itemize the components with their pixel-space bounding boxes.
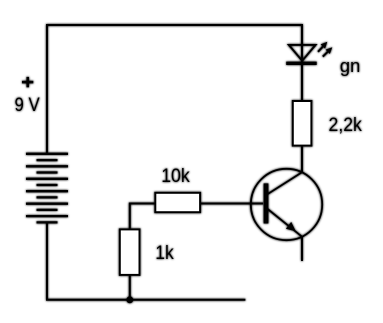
wire collector: [301, 146, 303, 173]
LED D1 arrow 1: [318, 42, 327, 52]
node junction dot: [126, 296, 133, 303]
resistor 1k: [120, 229, 140, 275]
transistor Q1 collector diagonal: [267, 172, 302, 194]
svg-text:gn: gn: [340, 55, 361, 76]
wire left rail: [46, 24, 48, 153]
transistor Q1 base bar: [264, 183, 269, 223]
svg-text:1k: 1k: [155, 243, 174, 264]
LED D1 triangle: [289, 45, 316, 61]
wire emitter: [301, 237, 303, 261]
svg-text:10k: 10k: [161, 166, 190, 187]
wire battery to bottom rail: [46, 222, 48, 300]
wire bottom rail: [46, 299, 245, 301]
battery B1 9V: [26, 154, 68, 223]
svg-text:2,2k: 2,2k: [329, 115, 363, 136]
resistor 2,2k: [293, 101, 312, 146]
wire base: [200, 203, 263, 205]
wire top rail: [46, 24, 303, 26]
wire 1k top to 10k left: [130, 204, 156, 230]
LED D1 cathode bar: [286, 62, 317, 65]
transistor Q1 emitter diagonal: [267, 209, 302, 237]
wire LED chain (top rail to resistor): [301, 24, 303, 101]
LED D1 arrow 2: [323, 47, 333, 56]
resistor 10k: [155, 193, 200, 212]
wire 1k to bottom rail: [129, 275, 131, 300]
transistor Q1 circle: [251, 169, 322, 240]
svg-text:9 V: 9 V: [15, 95, 40, 116]
label + (battery positive): [22, 77, 33, 87]
transistor Q1 emitter arrowhead: [286, 222, 296, 232]
